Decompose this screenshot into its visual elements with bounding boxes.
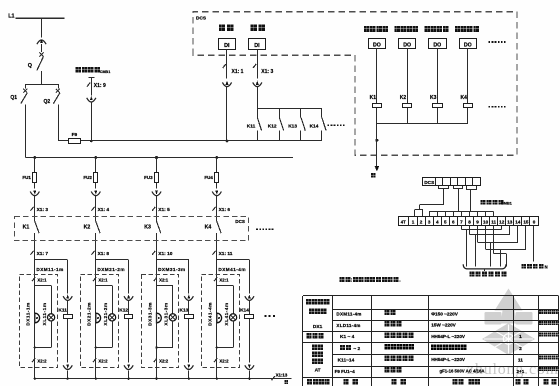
junction X1:9 on F9 line [90, 140, 93, 143]
DO box 2 [399, 39, 416, 49]
svg-text:X1: 5: X1: 5 [158, 207, 170, 213]
bracket A under DCS box [420, 186, 449, 210]
svg-text:XL31-3m: XL31-3m [164, 302, 170, 325]
wire X1:9 down [91, 102, 93, 142]
svg-text:X1: 9: X1: 9 [94, 83, 106, 89]
watermark logo [482, 289, 535, 356]
terminal X1: 7 label [30, 251, 48, 257]
terminal X2:2 label box 3 [154, 358, 169, 363]
svg-text:DX21-2m: DX21-2m [87, 302, 93, 326]
svg-text:6: 6 [452, 220, 455, 225]
wire Q2 corner to contact bank line [58, 140, 322, 142]
terminal X2:2 label box 2 [93, 358, 108, 363]
main control bus [26, 157, 293, 159]
DO box 3 [429, 39, 447, 49]
wires join in device box 3 [155, 321, 173, 349]
wire Q1 down [25, 105, 27, 158]
svg-text:CMB1: CMB1 [100, 70, 110, 74]
terminal X1: 10 label [152, 251, 173, 257]
table col6 remarks [539, 310, 559, 384]
busbar L1 [16, 17, 65, 19]
svg-text:DXM21-2m: DXM21-2m [97, 267, 125, 272]
comb feed line to terminals 3-11 [429, 211, 493, 216]
device branch tee box 1 [35, 285, 52, 314]
bracket over terminals 1-2 [415, 210, 423, 217]
svg-text:10: 10 [483, 220, 489, 225]
arrow end of coil common wire [371, 166, 379, 177]
svg-text:13: 13 [507, 220, 513, 225]
svg-text:X2:2: X2:2 [37, 358, 47, 363]
plug connector below coil K13 [184, 364, 193, 378]
switch Q label [28, 63, 32, 69]
svg-text:X1: 11: X1: 11 [219, 251, 233, 257]
table col1 texts [306, 299, 329, 385]
DCS contact box label [235, 219, 245, 224]
plug connector below FU3 [152, 182, 161, 195]
svg-text:4: 4 [436, 220, 439, 225]
device label DXM11-1m [36, 267, 63, 272]
wire coil K12 down [128, 319, 130, 363]
svg-text:X1: 3: X1: 3 [261, 69, 273, 75]
wire coil K11 down [67, 319, 69, 363]
wire bus to fuse FU2 [95, 158, 97, 173]
terminal X2:1 label box 4 [214, 277, 229, 282]
terminal X1: 6 label [212, 207, 230, 213]
svg-text:FU3: FU3 [144, 175, 153, 180]
junction bottom bus 1 [34, 378, 69, 380]
plug connector top feeder [37, 39, 46, 53]
svg-text:Q2: Q2 [44, 99, 51, 105]
svg-text:15: 15 [523, 220, 529, 225]
wire branch into device box 4 [216, 260, 218, 313]
terminal X1: 5 label [152, 207, 170, 213]
wire terminal 10 to 15 step [486, 225, 526, 266]
svg-text:XL41-4m: XL41-4m [224, 302, 230, 325]
svg-text:2+1: 2+1 [517, 369, 525, 374]
terminal X2:1 label box 3 [154, 277, 169, 282]
svg-text:DO: DO [433, 42, 441, 48]
wire X1:3 down to contact bank [257, 86, 259, 109]
svg-text:X2:2: X2:2 [98, 358, 108, 363]
terminal X2:1 label box 1 [32, 277, 47, 282]
svg-text:K4: K4 [461, 95, 468, 101]
svg-text:K3: K3 [144, 225, 151, 231]
svg-text:DCS: DCS [196, 15, 207, 21]
bell DX21-2m [87, 302, 101, 326]
svg-text:L1: L1 [8, 14, 14, 20]
wire to K box branch 1 [34, 196, 36, 217]
plug connector below coil K14 [245, 364, 254, 378]
svg-text:K11: K11 [247, 123, 256, 129]
plug connector above coil K14 [245, 294, 254, 300]
ellipsis after contact bank [328, 124, 345, 126]
device dashed box 1 [20, 275, 58, 368]
svg-text:DI: DI [254, 43, 260, 49]
lamp XL41-4m [224, 302, 237, 325]
table col5 quantities [515, 334, 528, 384]
relay coil K1 [370, 95, 382, 107]
label to small busbar N [521, 264, 547, 269]
plug connector above coil K13 [184, 294, 193, 300]
device branch tee box 3 [157, 285, 173, 314]
junction bottom bus 3 [155, 378, 190, 380]
busbar L1 label [8, 14, 14, 20]
svg-text:X1: 1: X1: 1 [232, 69, 244, 75]
svg-text:K12: K12 [268, 123, 277, 129]
lamp XL11-1m [42, 303, 55, 326]
plug connector below FU4 [212, 182, 221, 195]
ellipsis after DO boxes [489, 41, 506, 43]
DI box 2 [249, 39, 266, 50]
DO box 4 [460, 39, 477, 49]
device dashed box 3 [142, 275, 179, 368]
tee to coil K13 [157, 260, 189, 294]
note text [340, 277, 402, 284]
svg-text:DX31-3m: DX31-3m [147, 302, 153, 326]
svg-text:K14: K14 [310, 123, 319, 129]
tee to coil K11 [35, 260, 68, 294]
wire device box 2 to bottom bus [95, 348, 97, 379]
junction bus branch 2 [94, 156, 97, 159]
svg-text:8: 8 [468, 220, 471, 225]
terminal X2:2 label box 1 [32, 358, 47, 363]
wire branch into device box 3 [156, 260, 158, 313]
svg-text:X1: 4: X1: 4 [98, 207, 110, 213]
label to small busbar CMB1 right [481, 200, 513, 206]
DI label beiTuo (ready) [219, 25, 234, 32]
coil common bus [377, 123, 468, 125]
svg-text:HH54P-L ~220V: HH54P-L ~220V [431, 334, 466, 339]
DI box 1 [219, 39, 236, 50]
wire DI2 down [257, 49, 259, 78]
svg-text:X1: 7: X1: 7 [37, 251, 49, 257]
svg-text:1: 1 [519, 334, 522, 340]
svg-text:CMB1: CMB1 [501, 201, 513, 206]
ellipsis after K14 coil [265, 315, 275, 317]
svg-text:X2:2: X2:2 [159, 358, 169, 363]
wire DI1 down [226, 49, 228, 78]
contact bank top bus [257, 108, 322, 110]
svg-text:K1: K1 [370, 95, 377, 101]
svg-text:Q: Q [28, 63, 32, 69]
device branch tee box 4 [217, 285, 234, 314]
relay coil K12 [119, 301, 132, 319]
fuse F9 label [72, 132, 78, 138]
svg-text:X1: 6: X1: 6 [219, 207, 231, 213]
plug connector X1:1 [222, 81, 231, 87]
DO zone label 1 [364, 26, 388, 32]
relay coil K13 [180, 301, 194, 319]
plug connector below FU2 [91, 182, 100, 195]
svg-text:2: 2 [519, 346, 522, 352]
switch Q blade [37, 57, 44, 71]
watermark text zhulong.com [467, 361, 559, 378]
svg-text:9: 9 [476, 220, 479, 225]
bell DX11-1m [26, 302, 40, 325]
svg-text:DXM31-3m: DXM31-3m [158, 267, 186, 272]
svg-text:gF1-16 500V AC 4/16A: gF1-16 500V AC 4/16A [440, 369, 485, 374]
relay coil K11 [58, 301, 72, 319]
svg-text:K11: K11 [58, 307, 67, 313]
relay coil K4 [461, 95, 473, 107]
svg-text:X2:1: X2:1 [37, 277, 47, 282]
DCS terminal box [423, 177, 481, 186]
svg-text:X2:1: X2:1 [98, 277, 108, 282]
label to damper signal panel [469, 272, 506, 277]
svg-text:K2: K2 [84, 225, 91, 231]
contact K3 in DCS box [144, 217, 161, 260]
svg-text:3: 3 [428, 220, 431, 225]
brace to damper signal panel [463, 264, 506, 271]
svg-text:DO: DO [373, 42, 381, 48]
svg-text:X1: 10: X1: 10 [158, 251, 172, 257]
wire stub below CMB1 label [88, 78, 94, 83]
svg-text:DX11-1m: DX11-1m [26, 302, 32, 325]
contact K13 [288, 109, 305, 141]
DCS contact box dashed [15, 217, 249, 241]
terminal X1:1 label [223, 64, 244, 75]
svg-text:XLD11-4m: XLD11-4m [336, 323, 360, 328]
svg-text:DCS: DCS [235, 219, 245, 224]
relay coil K3 [430, 95, 443, 107]
svg-text:X2:1: X2:1 [159, 277, 169, 282]
device dashed box 2 [81, 275, 119, 368]
svg-text:DXM41-4m: DXM41-4m [218, 267, 246, 272]
wire Q to tee [26, 71, 58, 85]
wire coil K3 down [437, 108, 439, 124]
wire terminal 9 to 14 step [478, 225, 518, 266]
breaker mark X [39, 52, 43, 56]
wire terminal 11 drop [494, 225, 507, 266]
wire L1 to plug [41, 18, 43, 38]
svg-text:FU4: FU4 [204, 175, 213, 180]
svg-text:2: 2 [420, 220, 423, 225]
plug connector below FU1 [30, 182, 39, 195]
wire terminal 0 to busbar N [533, 225, 535, 261]
svg-text:FU1: FU1 [22, 175, 31, 180]
tee to coil K14 [217, 260, 250, 294]
svg-text:1: 1 [412, 220, 415, 225]
junction bottom bus 2 [95, 378, 130, 380]
junction bus branch 1 [33, 156, 36, 159]
tee to coil K12 [96, 260, 129, 294]
terminal X1: 8 label [91, 251, 109, 257]
terminal X1: 3 label [30, 207, 48, 213]
contact K14 [310, 109, 327, 141]
fuse FU2 [83, 173, 97, 183]
svg-text:F9 FU1~4: F9 FU1~4 [335, 369, 356, 374]
svg-text:K13: K13 [180, 307, 189, 313]
svg-text:0: 0 [533, 220, 536, 225]
wire bus to fuse FU3 [156, 158, 158, 173]
plug connector above coil K11 [63, 294, 72, 300]
terminal X1: 11 label [212, 251, 232, 257]
svg-text:F9: F9 [72, 132, 78, 138]
svg-text:HH54P-L ~220V: HH54P-L ~220V [431, 357, 466, 362]
terminal strip X1 [399, 217, 539, 226]
svg-text:12: 12 [499, 220, 505, 225]
contact K2 in DCS box [84, 217, 101, 260]
DO zone label 3 [425, 26, 449, 32]
svg-text:K1 ~ 4: K1 ~ 4 [340, 334, 355, 340]
wire coil K4 down [467, 108, 469, 124]
plug connector X1:9 [87, 82, 96, 102]
terminal X2:2 label box 4 [214, 358, 229, 363]
wires join in device box 2 [95, 321, 113, 349]
DCS enclosure dashed boundary [193, 12, 517, 156]
bell DX31-3m [147, 302, 161, 326]
bell DX41-4m [208, 302, 222, 326]
svg-text:K11~14: K11~14 [338, 357, 355, 363]
lamp XL31-3m [164, 302, 177, 325]
svg-text:DX1: DX1 [313, 324, 323, 330]
wires join in device box 4 [216, 321, 234, 349]
svg-text:DXM11-4m: DXM11-4m [336, 312, 361, 317]
svg-text:XL21-2m: XL21-2m [103, 302, 109, 325]
svg-text:K12: K12 [119, 307, 128, 313]
svg-text:K13: K13 [288, 123, 297, 129]
svg-text:K2: K2 [400, 95, 407, 101]
ellipsis after K coils [489, 106, 506, 108]
svg-text:DO: DO [403, 42, 411, 48]
svg-text:DO: DO [464, 42, 472, 48]
device label DXM41-4m [218, 267, 246, 272]
terminal X1:9 label [87, 83, 106, 90]
junction bus branch 4 [215, 156, 218, 159]
wire bus to fuse FU1 [34, 158, 36, 173]
terminal X1: 4 label [91, 207, 109, 213]
plug connector below coil K11 [63, 364, 72, 378]
bracket B under DCS box [453, 186, 462, 212]
wire coil K13 down [188, 319, 190, 363]
ellipsis after DCS contact box [256, 228, 273, 230]
wire device box 1 to bottom bus [34, 348, 36, 379]
switch Q1 [10, 84, 27, 104]
svg-text:N: N [545, 264, 548, 269]
DO zone label 4 [455, 26, 479, 32]
svg-text:7: 7 [460, 220, 463, 225]
svg-text:K4: K4 [205, 225, 212, 231]
svg-text:X2:1: X2:1 [219, 277, 229, 282]
fuse FU3 [144, 173, 158, 183]
svg-text:K3: K3 [430, 95, 437, 101]
svg-text:5: 5 [444, 220, 447, 225]
DCS enclosure label [196, 15, 207, 21]
device label DXM21-2m [97, 267, 125, 272]
wire X1:1 down to line [226, 86, 229, 142]
wire DO3 to coil [437, 48, 439, 103]
plug connector X1:3 [253, 81, 262, 87]
svg-text:X1: 8: X1: 8 [98, 251, 110, 257]
contact K4 in DCS box [205, 217, 222, 260]
label to small busbar CMB1 [76, 67, 111, 74]
svg-text:~ 2: ~ 2 [353, 346, 360, 352]
device dashed box 4 [202, 275, 240, 368]
DO zone label 2 [394, 26, 418, 32]
table col3 names [384, 310, 414, 385]
wire to K box branch 3 [156, 196, 158, 217]
svg-text:K1: K1 [23, 225, 30, 231]
terminal X2:1 label box 2 [93, 277, 108, 282]
plug connector below coil K12 [124, 364, 133, 378]
svg-text:X2:2: X2:2 [219, 358, 229, 363]
fuse FU1 [22, 173, 36, 183]
wire coil K14 down [249, 319, 251, 363]
wire Q2 down [58, 105, 60, 142]
DI label guZhang (fault) [250, 25, 265, 32]
svg-text:15W ~220V: 15W ~220V [431, 323, 456, 328]
wire DO4 to coil [467, 48, 469, 103]
lamp XL21-2m [103, 302, 116, 325]
svg-text:4T: 4T [401, 220, 406, 225]
junction bus branch 3 [155, 156, 158, 159]
wire terminal 7 to 12 step [461, 225, 501, 266]
switch Q2 [44, 84, 60, 105]
device branch tee box 2 [96, 285, 113, 314]
DO box 1 [369, 39, 386, 49]
table col2 symbols [335, 312, 362, 385]
junction bottom bus 4 [216, 378, 251, 380]
wire coil K1 down [376, 108, 378, 124]
contact K1 in DCS box [23, 217, 39, 260]
bracket C under DCS box [466, 186, 477, 212]
contact K11 [247, 109, 262, 141]
wire terminal 8 to 13 step [469, 225, 509, 266]
fuse FU4 [204, 173, 218, 183]
equipment table grid [303, 296, 559, 387]
svg-text:14: 14 [515, 220, 521, 225]
svg-text:DCS: DCS [424, 180, 434, 185]
wires join in device box 1 [34, 321, 52, 349]
table col4 specs [431, 311, 484, 384]
svg-text:11: 11 [518, 357, 523, 363]
wire DO1 to coil [376, 48, 378, 103]
wire to K box branch 4 [216, 196, 218, 217]
svg-text:X1: 3: X1: 3 [37, 207, 49, 213]
contact K12 [268, 109, 284, 141]
svg-text:X1:13: X1:13 [276, 373, 288, 378]
svg-text:DXM11-1m: DXM11-1m [36, 267, 63, 272]
terminal X1:13 label at bus end [272, 373, 288, 384]
svg-text:K14: K14 [240, 307, 249, 313]
bottom common bus [35, 378, 292, 380]
terminal X1:3 label [253, 64, 273, 75]
svg-text:Q1: Q1 [10, 95, 17, 101]
svg-text:FU2: FU2 [83, 175, 92, 180]
wire bus to fuse FU4 [216, 158, 218, 173]
plug connector above coil K12 [124, 294, 133, 300]
svg-text:Φ150 ~220V: Φ150 ~220V [431, 311, 459, 316]
wire device box 3 to bottom bus [156, 348, 158, 379]
relay coil K14 [240, 301, 253, 319]
svg-text:DX41-4m: DX41-4m [208, 302, 214, 326]
svg-text:AT: AT [315, 368, 321, 374]
svg-text:XL11-1m: XL11-1m [42, 303, 48, 326]
wire DO2 to coil [407, 48, 409, 103]
wire coil K2 down [407, 108, 409, 124]
wire branch into device box 1 [34, 260, 36, 313]
svg-text:11: 11 [491, 220, 496, 225]
wire device box 4 to bottom bus [216, 348, 218, 379]
relay coil K2 [400, 95, 412, 107]
fuse F9 [69, 139, 81, 144]
device label DXM31-3m [158, 267, 186, 272]
wire to K box branch 2 [95, 196, 97, 217]
wire branch into device box 2 [95, 260, 97, 313]
wire coil bus down [375, 123, 378, 168]
svg-text:DI: DI [224, 43, 230, 49]
